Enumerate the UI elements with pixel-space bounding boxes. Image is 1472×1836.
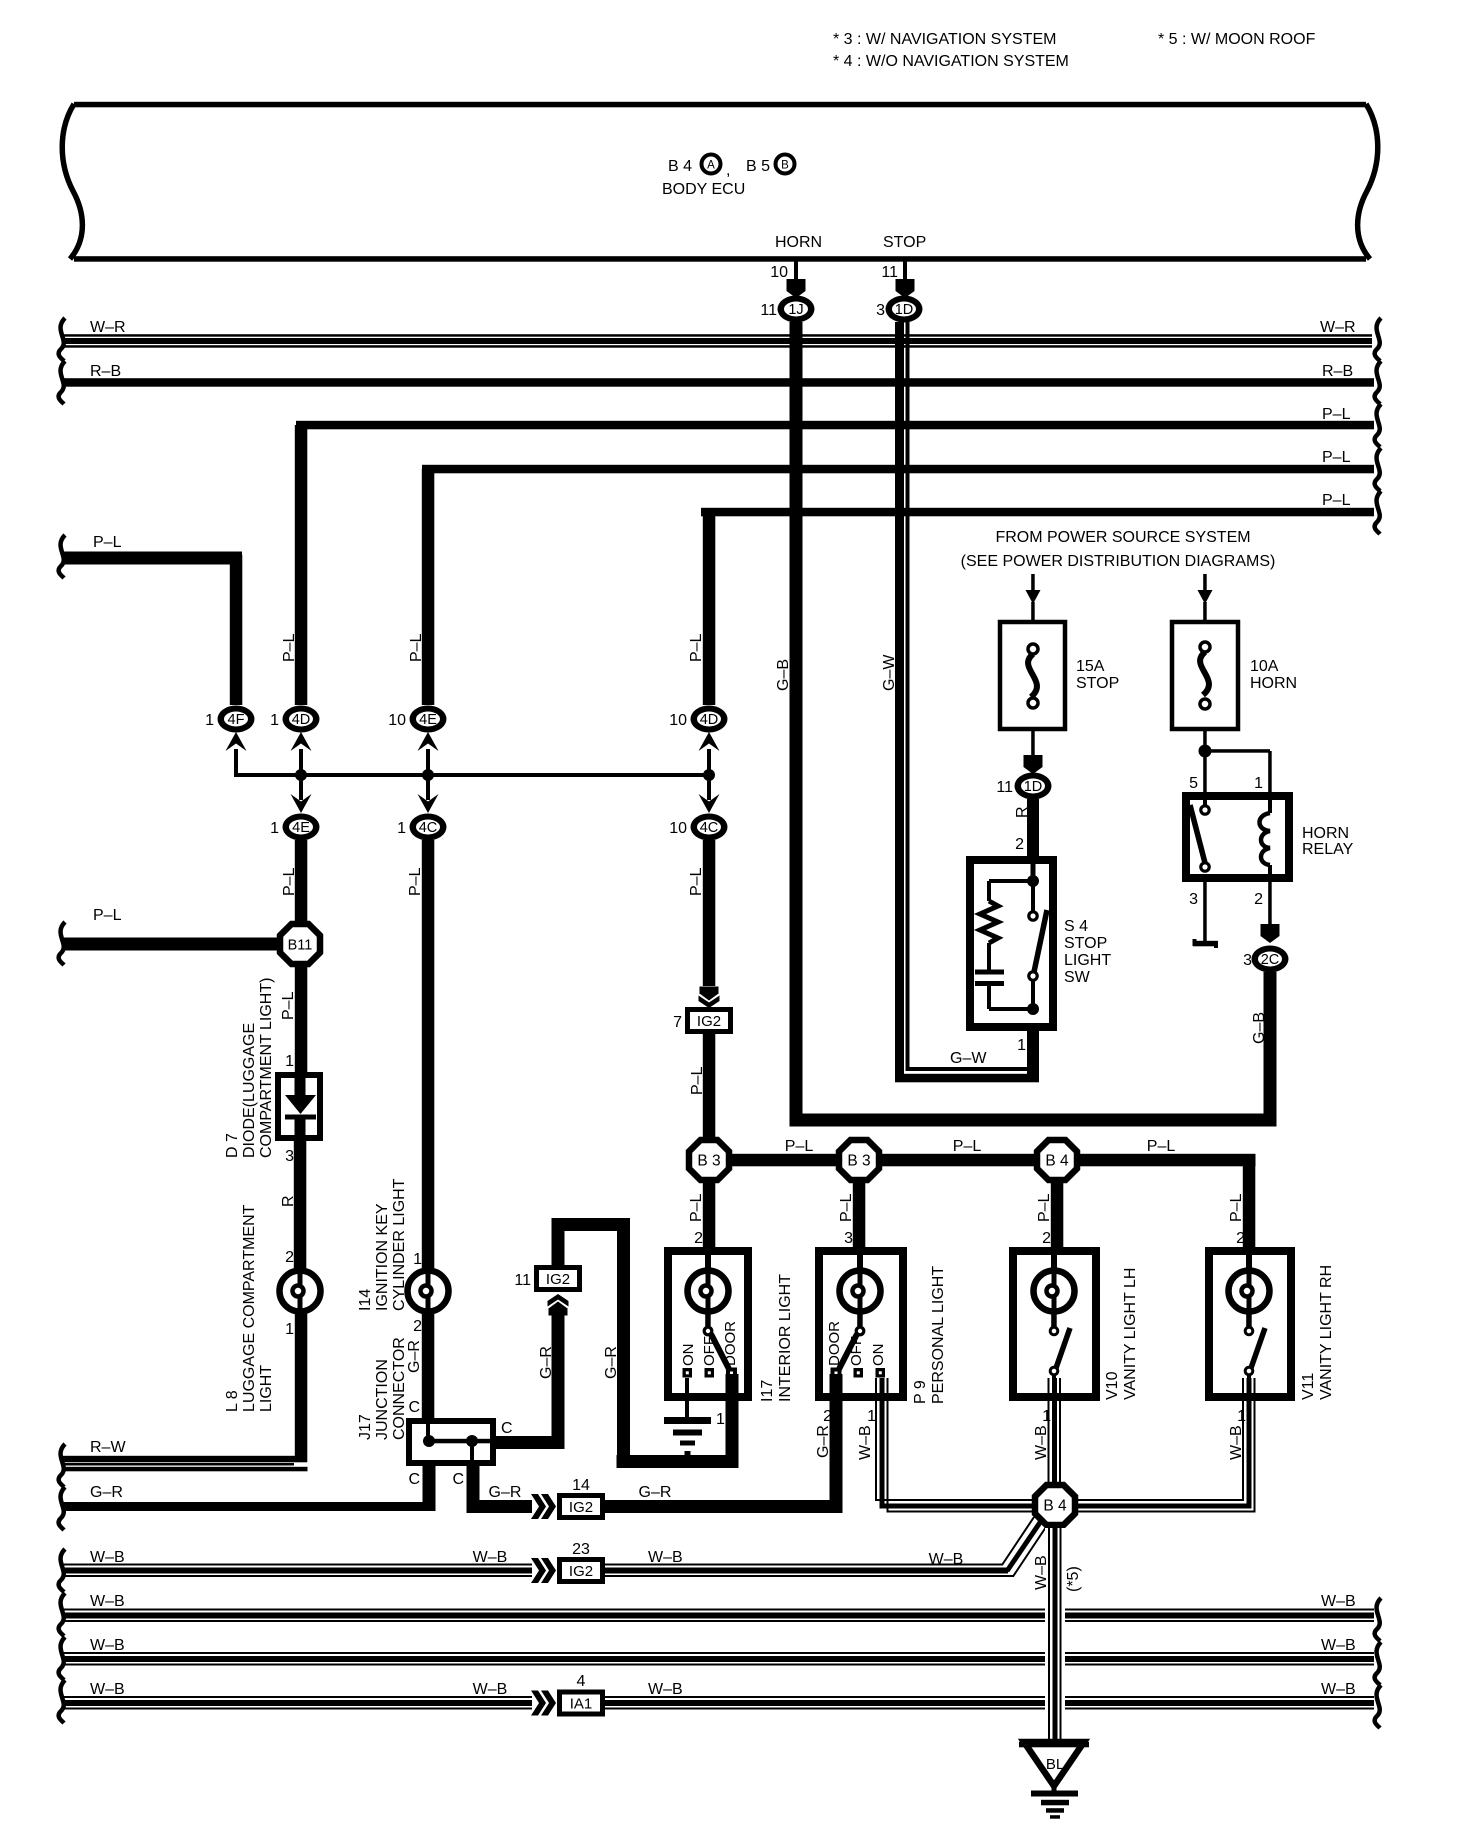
svg-text:W–B: W–B (90, 1549, 125, 1566)
svg-text:A: A (707, 160, 715, 172)
pin 3 P9 (844, 1230, 853, 1247)
bus W-R (59, 318, 1381, 361)
label P-L col2 upper (281, 867, 298, 896)
svg-text:STOP: STOP (1064, 935, 1107, 952)
wire G-R IG2-14 to P9 (605, 1500, 843, 1513)
junction B4 row (1037, 1140, 1077, 1180)
svg-text:B: B (781, 160, 789, 172)
pin C J17 right (501, 1420, 513, 1437)
svg-text:B11: B11 (288, 938, 313, 954)
svg-text:IG2: IG2 (569, 1499, 593, 1516)
svg-text:P–L: P–L (93, 534, 122, 551)
svg-text:P–L: P–L (1322, 492, 1351, 509)
svg-text:IG2: IG2 (569, 1563, 593, 1580)
svg-text:2: 2 (285, 1249, 294, 1266)
body ECU box (62, 102, 1378, 262)
label W-B below V11 (1228, 1425, 1245, 1460)
svg-text:W–B: W–B (90, 1681, 125, 1698)
S4 lower junction (989, 1003, 1039, 1015)
svg-text:3: 3 (1243, 952, 1252, 969)
label R col2 (280, 1195, 297, 1207)
svg-text:P–L: P–L (281, 867, 298, 896)
power feed arrow to 15A fuse (1026, 574, 1041, 622)
bulb V10 (1034, 1271, 1075, 1312)
svg-text:HORN: HORN (1250, 675, 1297, 692)
svg-text:JUNCTION: JUNCTION (374, 1359, 391, 1440)
svg-text:2: 2 (694, 1230, 703, 1247)
bus P-L left stub to B11 (59, 907, 277, 965)
label DOOR P9 (826, 1321, 843, 1366)
svg-text:G–R: G–R (815, 1425, 832, 1458)
arrow right into IA1-4 (531, 1691, 556, 1716)
svg-text:HORN: HORN (775, 234, 822, 251)
connector 4E col2 (270, 814, 319, 841)
connector IG2 pin 23 (557, 1541, 605, 1584)
svg-text:2: 2 (1015, 836, 1024, 853)
arrow right into IG2-14 (531, 1494, 556, 1519)
svg-text:3: 3 (844, 1230, 853, 1247)
svg-text:L 8: L 8 (224, 1390, 241, 1412)
svg-text:1: 1 (867, 1408, 876, 1425)
svg-text:P–L: P–L (407, 867, 424, 896)
svg-text:7: 7 (673, 1014, 682, 1031)
arrow up into 4D col2 (291, 732, 312, 777)
pin C J17 bottom-left (408, 1471, 420, 1488)
diode D7 box (278, 1075, 320, 1138)
label ON P9 (870, 1344, 887, 1367)
wire relay pin3 to horn (1193, 878, 1219, 948)
wire IG2-7 to B3 (703, 1034, 716, 1138)
svg-text:W–B: W–B (1033, 1425, 1050, 1460)
bus W-B first (59, 1549, 532, 1592)
bus G-R left (59, 1484, 436, 1530)
bulb I17 (688, 1271, 729, 1312)
svg-text:4: 4 (577, 1673, 586, 1690)
label L8 (224, 1204, 275, 1412)
svg-text:B 4: B 4 (668, 158, 692, 175)
personal light P9 box (819, 1251, 903, 1397)
svg-text:G–W: G–W (881, 654, 898, 691)
svg-text:3: 3 (876, 302, 885, 319)
junction connector B11 (280, 924, 320, 964)
svg-text:G–W: G–W (950, 1050, 987, 1067)
svg-text:P–L: P–L (281, 633, 298, 662)
V10 feed (1051, 1255, 1057, 1271)
svg-text:,: , (726, 162, 730, 179)
connector 1D (876, 296, 922, 323)
svg-text:DOOR: DOOR (826, 1321, 843, 1366)
V10 switch (1050, 1311, 1070, 1397)
svg-text:W–B: W–B (648, 1549, 683, 1566)
svg-text:10: 10 (669, 820, 687, 837)
label G-R after IG2-14 (639, 1484, 672, 1501)
svg-text:S 4: S 4 (1064, 918, 1088, 935)
svg-text:R–B: R–B (1322, 363, 1353, 380)
label *5 (1065, 1566, 1082, 1592)
bus W-B fourth right part (605, 1681, 1381, 1728)
P9 feed (857, 1255, 863, 1271)
ground BL triangle (1019, 1742, 1089, 1786)
label G-R before IG2-14 (489, 1484, 522, 1501)
svg-text:1: 1 (716, 1411, 725, 1428)
svg-text:G–R: G–R (639, 1484, 672, 1501)
svg-text:W–B: W–B (1321, 1637, 1356, 1654)
wire B3 to I17 (703, 1183, 716, 1251)
svg-text:W–B: W–B (648, 1681, 683, 1698)
svg-text:P–L: P–L (688, 633, 705, 662)
label W-B below P9 (857, 1425, 874, 1460)
svg-text:IA1: IA1 (570, 1696, 593, 1713)
svg-text:2C: 2C (1261, 952, 1280, 968)
svg-text:INTERIOR LIGHT: INTERIOR LIGHT (777, 1274, 794, 1402)
svg-text:LIGHT: LIGHT (258, 1365, 275, 1412)
svg-text:G–R: G–R (603, 1346, 620, 1379)
I17 feed (705, 1255, 711, 1271)
P9 switch (831, 1311, 886, 1379)
label P-L col3 top (408, 633, 425, 662)
svg-text:2: 2 (1236, 1230, 1245, 1247)
wire up to IG2-11 loop (552, 1218, 631, 1462)
svg-text:R: R (280, 1195, 297, 1207)
svg-text:IG2: IG2 (697, 1013, 721, 1030)
wire J17 bottom-left pin (423, 1463, 436, 1511)
wire 15A fuse to 1D (1024, 729, 1043, 774)
svg-text:COMPARTMENT LIGHT): COMPARTMENT LIGHT) (258, 978, 275, 1158)
bulb I14 ignition key cylinder light (408, 1271, 449, 1312)
wire relay pin2 to 2C (1261, 878, 1280, 943)
wire I17 door pin to junction (617, 1374, 739, 1468)
svg-text:STOP: STOP (883, 234, 926, 251)
svg-text:(*5): (*5) (1065, 1566, 1082, 1592)
svg-text:C: C (408, 1471, 420, 1488)
pin 1 P9 (867, 1408, 876, 1425)
wire ECU pin 11 stem (903, 259, 907, 280)
pin 1 D7 (285, 1053, 294, 1070)
wire R 1D to S4 pin 2 (1027, 799, 1039, 858)
svg-text:B 3: B 3 (697, 1153, 720, 1170)
svg-text:11: 11 (514, 1272, 531, 1289)
bus W-B fourth (59, 1680, 532, 1723)
bus P-L second (422, 448, 1381, 491)
svg-text:4F: 4F (228, 712, 245, 728)
label DOOR I17 (722, 1321, 739, 1366)
svg-text:PERSONAL LIGHT: PERSONAL LIGHT (930, 1266, 947, 1404)
wire P9 door pin down (830, 1374, 843, 1500)
HORN pin name (775, 234, 822, 251)
arrow down into 4C col3 (418, 775, 439, 813)
svg-text:BL: BL (1046, 1756, 1064, 1773)
svg-text:2: 2 (413, 1318, 422, 1335)
svg-text:B 5: B 5 (746, 158, 770, 175)
svg-text:1: 1 (397, 820, 406, 837)
svg-text:W–B: W–B (1033, 1555, 1050, 1590)
svg-text:W–B: W–B (473, 1681, 508, 1698)
svg-text:B 4: B 4 (1043, 1498, 1067, 1515)
svg-text:OFF: OFF (701, 1336, 718, 1366)
wire B4 to BL over buses (1045, 1595, 1065, 1720)
svg-text:HORN: HORN (1302, 825, 1349, 842)
pin C J17 top (408, 1399, 420, 1416)
svg-text:DIODE(LUGGAGE: DIODE(LUGGAGE (241, 1023, 258, 1158)
svg-text:11: 11 (881, 264, 898, 281)
connector 2C (1243, 946, 1288, 973)
power source heading (961, 529, 1276, 570)
svg-text:2: 2 (1042, 1230, 1051, 1247)
svg-text:(SEE POWER DISTRIBUTION DIAGRA: (SEE POWER DISTRIBUTION DIAGRAMS) (961, 553, 1276, 570)
V11 feed (1246, 1255, 1252, 1271)
label P-L between B3 B3 (785, 1138, 814, 1155)
arrow down into 4C col4 (699, 775, 720, 813)
wire W-B diagonal to B4 (1002, 1517, 1046, 1577)
svg-text:G–R: G–R (538, 1346, 555, 1379)
body ECU connector id B4 A (668, 155, 730, 180)
arrow into 1J (787, 279, 806, 298)
svg-text:23: 23 (572, 1541, 590, 1558)
bulb P9 (840, 1271, 881, 1312)
label J17 (357, 1337, 408, 1440)
svg-text:VANITY LIGHT RH: VANITY LIGHT RH (1318, 1265, 1335, 1400)
svg-text:* 3 : W/ NAVIGATION SYSTEM: * 3 : W/ NAVIGATION SYSTEM (833, 31, 1056, 48)
label W-B diagonal (929, 1551, 964, 1568)
label G-R col3 (406, 1340, 423, 1373)
svg-text:1D: 1D (895, 302, 914, 318)
svg-text:3: 3 (1189, 891, 1198, 908)
svg-text:1: 1 (1042, 1408, 1051, 1425)
label horn relay (1302, 825, 1354, 858)
label S4 (1064, 918, 1111, 986)
connector IG2 pin 7 (673, 1007, 733, 1034)
pin 3 horn relay (1189, 891, 1198, 908)
svg-text:W–B: W–B (473, 1549, 508, 1566)
svg-text:4C: 4C (419, 820, 438, 836)
svg-text:IG2: IG2 (546, 1271, 570, 1288)
wire B11 to diode D7 (295, 966, 308, 1073)
svg-text:ON: ON (870, 1344, 887, 1367)
svg-text:1: 1 (1237, 1408, 1246, 1425)
svg-text:OFF: OFF (848, 1336, 865, 1366)
switch S4 box (970, 860, 1053, 1027)
svg-text:1: 1 (205, 712, 214, 729)
svg-text:4D: 4D (292, 712, 311, 728)
svg-text:G–R: G–R (90, 1484, 123, 1501)
vanity light V11 box (1209, 1251, 1291, 1397)
arrow down into IG2-7 (699, 987, 720, 1009)
label G-R IG2-11 leg (538, 1346, 555, 1379)
label G-R below P9 (815, 1425, 832, 1458)
wire G-W 1D to stop light switch (895, 322, 1039, 1082)
pin 3 D7 (285, 1148, 294, 1165)
svg-text:I17: I17 (759, 1380, 776, 1402)
junction connector J17 (409, 1421, 493, 1463)
capacitor in S4 (975, 970, 1004, 1010)
pin 1 horn relay (1254, 775, 1263, 792)
bus W-B second (59, 1593, 1381, 1641)
svg-text:5: 5 (1189, 775, 1198, 792)
label P-L above V10 (1036, 1193, 1053, 1222)
label G-B right (1251, 1012, 1268, 1044)
arrow up into 4E col3 (418, 732, 439, 777)
wire J17 right to IG2-11 (496, 1313, 565, 1449)
I17 switch (683, 1311, 738, 1379)
V11 switch (1245, 1311, 1265, 1397)
arrow up into 4F (226, 732, 247, 777)
horn relay switch (1190, 796, 1209, 871)
svg-text:10A: 10A (1250, 658, 1279, 675)
connector 4D col4 (669, 706, 727, 733)
svg-text:1J: 1J (788, 302, 803, 318)
svg-text:1: 1 (270, 712, 279, 729)
wire 4E to B11 (295, 840, 308, 923)
wire 4C col4 down to IG2-7 (703, 840, 716, 986)
svg-text:RELAY: RELAY (1302, 841, 1354, 858)
bus W-B third (59, 1637, 1381, 1685)
bulb V11 (1229, 1271, 1270, 1312)
svg-text:2: 2 (1254, 891, 1263, 908)
pin 1 I17 (716, 1411, 725, 1428)
svg-text:P–L: P–L (280, 991, 297, 1020)
arrow right into IG2-23 (531, 1558, 556, 1583)
svg-text:4C: 4C (700, 820, 719, 836)
svg-text:1: 1 (285, 1321, 294, 1338)
wire 4C to I14 (422, 840, 435, 1270)
note w/ navigation system (833, 31, 1056, 48)
interior light I17 box (668, 1251, 748, 1397)
horn relay box (1186, 796, 1289, 878)
svg-text:10: 10 (669, 712, 687, 729)
svg-text:CONNECTOR: CONNECTOR (391, 1337, 408, 1440)
resistor in S4 (980, 901, 998, 970)
svg-text:C: C (501, 1420, 513, 1437)
wire B3 to B4 (882, 1154, 1034, 1167)
svg-text:G–B: G–B (1251, 1012, 1268, 1044)
svg-text:P–L: P–L (1036, 1193, 1053, 1222)
bus R-B (59, 361, 1381, 404)
arrow into 1D (896, 279, 915, 298)
label I17 (759, 1274, 794, 1402)
wire V10 to B4 (1048, 1378, 1062, 1484)
wire P-L stub down to 4F (230, 555, 243, 705)
I17 ground wire (685, 1378, 689, 1417)
svg-text:W–R: W–R (90, 319, 126, 336)
pin 11 (881, 264, 898, 281)
svg-text:1: 1 (413, 1251, 422, 1268)
pin 1 V10 (1042, 1408, 1051, 1425)
svg-text:3: 3 (285, 1148, 294, 1165)
label V11 (1300, 1265, 1335, 1400)
wire P-L second bus down to 4E (422, 469, 435, 705)
svg-text:I14: I14 (357, 1289, 374, 1311)
svg-text:11: 11 (760, 302, 777, 319)
svg-text:W–R: W–R (1320, 319, 1356, 336)
pin C J17 bottom-right (452, 1471, 464, 1488)
bulb L8 luggage compartment light (280, 1271, 321, 1312)
pin 1 I14 (413, 1251, 422, 1268)
svg-text:P–L: P–L (93, 907, 122, 924)
connector 4C col3 (397, 814, 446, 841)
svg-text:P–L: P–L (1322, 406, 1351, 423)
pin 2 horn relay (1254, 891, 1263, 908)
label P-L col2 lower (280, 991, 297, 1020)
label P-L above I17 (688, 1193, 705, 1222)
label W-B below V10 (1033, 1425, 1050, 1460)
svg-text:10: 10 (770, 264, 788, 281)
svg-text:D 7: D 7 (224, 1133, 241, 1158)
bus R-W (59, 1439, 308, 1487)
label R (1014, 806, 1031, 818)
svg-text:P–L: P–L (785, 1138, 814, 1155)
label G-B left (775, 659, 792, 691)
note w/ moon roof (1158, 31, 1316, 48)
wire P9 on pin to B4 (876, 1378, 1035, 1512)
svg-text:P–L: P–L (953, 1138, 982, 1155)
svg-text:1: 1 (1254, 775, 1263, 792)
svg-text:R–B: R–B (90, 363, 121, 380)
svg-text:P–L: P–L (688, 1193, 705, 1222)
wire B4 to BL ground (1045, 1528, 1065, 1741)
pin 2 S4 (1015, 836, 1024, 853)
pin 2 L8 (285, 1249, 294, 1266)
arrow up into IG2-11 (548, 1294, 569, 1316)
pin 5 horn relay (1189, 775, 1198, 792)
svg-text:W–B: W–B (90, 1593, 125, 1610)
interconnect line (234, 769, 715, 781)
svg-text:W–B: W–B (90, 1637, 125, 1654)
svg-text:P–L: P–L (1228, 1193, 1245, 1222)
svg-text:BODY ECU: BODY ECU (662, 181, 745, 198)
svg-text:P–L: P–L (1322, 449, 1351, 466)
wire ECU pin 10 stem (794, 259, 798, 280)
label W-B below B4 (1033, 1555, 1050, 1590)
svg-text:1: 1 (270, 820, 279, 837)
label P-L col4 top (688, 633, 705, 662)
svg-text:DOOR: DOOR (722, 1321, 739, 1366)
connector IA1 pin 4 (557, 1673, 605, 1717)
svg-text:B 4: B 4 (1045, 1153, 1069, 1170)
label G-W horizontal (950, 1050, 987, 1067)
body ECU connector id B5 B (746, 155, 795, 176)
pin 1 V11 (1237, 1408, 1246, 1425)
svg-text:C: C (452, 1471, 464, 1488)
connector 4D col2 (270, 706, 319, 733)
svg-text:W–B: W–B (857, 1425, 874, 1460)
bus W-B first right part (605, 1549, 1014, 1577)
svg-text:P–L: P–L (408, 633, 425, 662)
svg-text:FROM POWER SOURCE SYSTEM: FROM POWER SOURCE SYSTEM (995, 529, 1250, 546)
wire I14 to J17 (422, 1311, 435, 1421)
label P-L after B4 (1147, 1138, 1176, 1155)
svg-text:LUGGAGE COMPARTMENT: LUGGAGE COMPARTMENT (241, 1204, 258, 1412)
svg-text:LIGHT: LIGHT (1064, 952, 1111, 969)
svg-text:G–R: G–R (489, 1484, 522, 1501)
label P-L above P9 (838, 1193, 855, 1222)
bus P-L left stub to 4F (59, 534, 242, 578)
svg-text:14: 14 (572, 1477, 590, 1494)
svg-text:15A: 15A (1076, 658, 1105, 675)
svg-text:R–W: R–W (90, 1439, 126, 1456)
svg-text:W–B: W–B (1321, 1681, 1356, 1698)
svg-text:P–L: P–L (838, 1193, 855, 1222)
svg-text:G–B: G–B (775, 659, 792, 691)
label P-L above V11 (1228, 1193, 1245, 1222)
wire P-L third bus down to 4D (703, 512, 716, 705)
svg-text:VANITY LIGHT LH: VANITY LIGHT LH (1122, 1268, 1139, 1400)
svg-text:G–R: G–R (406, 1340, 423, 1373)
bus P-L third (701, 491, 1381, 534)
svg-text:W–B: W–B (1321, 1593, 1356, 1610)
fuse 15A STOP (1000, 622, 1119, 729)
svg-text:V11: V11 (1300, 1373, 1317, 1400)
ground I17 (664, 1417, 711, 1455)
